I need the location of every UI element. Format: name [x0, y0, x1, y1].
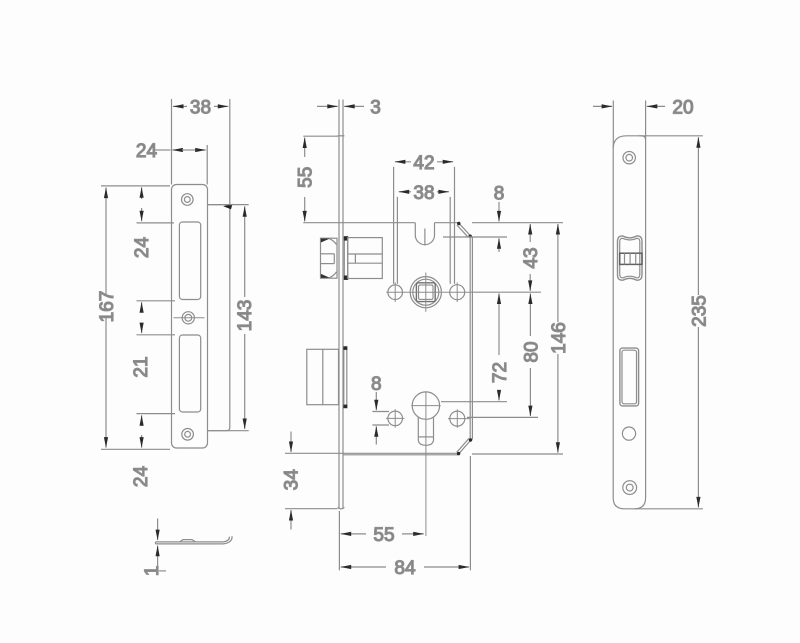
extension line plate left edge up: [171, 99, 173, 185]
svg-text:55: 55: [296, 167, 317, 188]
svg-text:24: 24: [131, 466, 152, 488]
deadbolt cutout: [620, 348, 639, 406]
dimension 84: [341, 558, 469, 579]
extension line 235 top: [639, 135, 703, 137]
dimension 72: [490, 294, 511, 401]
center hole centerline: [174, 317, 205, 319]
svg-text:72: 72: [490, 362, 511, 383]
extension line 34 bottom (faceplate tip): [285, 508, 338, 510]
faceplate bottom cap: [338, 507, 345, 509]
dimension 20: [593, 98, 694, 119]
dimension 1 (profile thickness): [142, 519, 166, 577]
extension line case top right: [472, 222, 563, 224]
case right edge: [469, 236, 471, 440]
extension line 84 right: [469, 456, 471, 570]
horizontal centerline through hub and screws: [386, 291, 470, 293]
extension line 80 bottom (screw centerline): [467, 416, 538, 418]
faceplate top cap: [338, 135, 345, 137]
extension line 235 bottom: [635, 508, 703, 510]
lip corner leader arrow: [223, 204, 232, 210]
extension line spindle centerline right: [470, 291, 541, 293]
middle hole: [622, 427, 635, 440]
extension line 72 bottom (cylinder centerline): [441, 401, 507, 403]
svg-text:8: 8: [371, 374, 382, 395]
faceplate edge right: [342, 100, 344, 509]
dimension 8 cylinder screw: [371, 374, 382, 445]
svg-text:80: 80: [521, 341, 542, 362]
dimension 55 bottom: [341, 525, 424, 546]
extension line 55 bottom / case top left: [303, 222, 343, 224]
extension lines 20: [612, 101, 614, 148]
svg-text:84: 84: [394, 558, 416, 579]
extension line 24 right: [206, 145, 208, 185]
euro cylinder hole: [412, 392, 439, 419]
profile curl: [224, 536, 233, 544]
MIDDLE VIEW: lock body: [281, 98, 570, 580]
strike plate body: [172, 185, 208, 449]
dimension 167: [97, 188, 118, 448]
spindle hub: [410, 277, 441, 308]
cylinder screw left: [388, 411, 403, 426]
screw hole bottom: [182, 429, 194, 441]
LEFT VIEW: strike plate: [97, 98, 256, 577]
dimension 8 top right: [494, 184, 505, 253]
extension line 143 top (step line): [208, 204, 249, 206]
svg-text:38: 38: [413, 183, 434, 204]
extension line 34 top (case bottom left): [285, 452, 343, 454]
extension line 8 bottom (chamfer ledge): [443, 236, 507, 238]
svg-text:38: 38: [190, 98, 211, 119]
svg-text:1: 1: [142, 566, 163, 577]
case top edge: [343, 222, 415, 224]
screw hole left of hub: [388, 285, 403, 300]
dimension 43: [521, 224, 542, 291]
screw hole top: [182, 194, 194, 206]
center hole: [182, 312, 194, 324]
extension line 38 right: [229, 99, 231, 205]
svg-text:20: 20: [672, 98, 693, 119]
svg-text:24: 24: [136, 141, 158, 162]
profile bump: [180, 540, 196, 542]
dimension 55 left: [296, 138, 317, 222]
faceplate edge left: [338, 100, 340, 509]
lip profile view (bottom): [156, 536, 233, 544]
svg-text:146: 146: [549, 322, 570, 354]
dimension 146: [549, 224, 570, 453]
svg-text:21: 21: [131, 356, 152, 377]
extension line 146 bottom: [472, 453, 563, 455]
bottom screw ring: [623, 481, 637, 495]
notch center tick: [424, 229, 426, 246]
svg-text:55: 55: [373, 525, 394, 546]
extension line 167/24 bottom: [101, 448, 170, 450]
extension line chain cutout1 bottom: [137, 300, 176, 302]
spindle notch: [415, 223, 434, 245]
latch bolt front (spool): [617, 236, 642, 280]
latch head band: [321, 253, 335, 255]
dimension 38 top: [173, 98, 228, 119]
extension line chain cutout2 top: [137, 334, 176, 336]
latch body: [348, 238, 383, 279]
case bottom edge: [343, 452, 459, 454]
svg-text:3: 3: [370, 98, 381, 119]
svg-text:43: 43: [521, 247, 542, 268]
dimension 24 chain upper: [132, 187, 153, 258]
screw hole right of hub: [450, 285, 465, 300]
extension lines 42: [393, 167, 395, 284]
extension line 167 top: [101, 185, 170, 187]
svg-text:42: 42: [413, 153, 434, 174]
top-right chamfer: [459, 223, 471, 236]
svg-text:167: 167: [97, 291, 118, 323]
extension line 55/84 left: [338, 511, 340, 570]
RIGHT VIEW: face plate: [593, 98, 710, 509]
latch head: [321, 238, 338, 278]
dimension 21 chain middle: [131, 302, 152, 377]
tangent ticks for dim 8 (screw dia): [372, 411, 389, 413]
face plate outline: [613, 136, 645, 509]
extension line chain cutout1 top: [137, 222, 175, 224]
deadbolt collar: [343, 346, 345, 408]
hub crosshair: [425, 273, 427, 312]
extension line chain cutout2 bottom: [137, 413, 176, 415]
dimension 3 (faceplate thickness): [317, 98, 381, 119]
strike plate lip (right step): [208, 205, 230, 431]
top screw ring: [623, 152, 635, 164]
cylinder screw right: [450, 411, 465, 426]
dimension 38 middle: [399, 183, 449, 204]
svg-text:235: 235: [689, 295, 710, 327]
bottom-right chamfer: [458, 440, 471, 454]
latch cutout upper: [179, 222, 200, 300]
svg-text:24: 24: [132, 237, 153, 259]
latch collar: [343, 236, 345, 280]
dimension 235: [689, 137, 710, 507]
svg-text:143: 143: [235, 300, 256, 332]
dimension 34: [281, 432, 302, 530]
dimension 143: [235, 206, 256, 429]
dimension 42: [395, 153, 453, 174]
svg-text:34: 34: [281, 469, 302, 491]
dimension 24 chain lower: [131, 415, 152, 487]
extension line 143 bottom: [208, 430, 249, 432]
dimension 24 top: [136, 141, 206, 162]
deadbolt cutout lower: [179, 335, 200, 412]
latch band: [620, 253, 642, 264]
dimension 80: [521, 294, 542, 417]
extension line 55 top: [303, 135, 338, 137]
deadbolt: [307, 349, 339, 404]
extension lines 38: [396, 197, 398, 284]
svg-text:8: 8: [494, 184, 505, 205]
